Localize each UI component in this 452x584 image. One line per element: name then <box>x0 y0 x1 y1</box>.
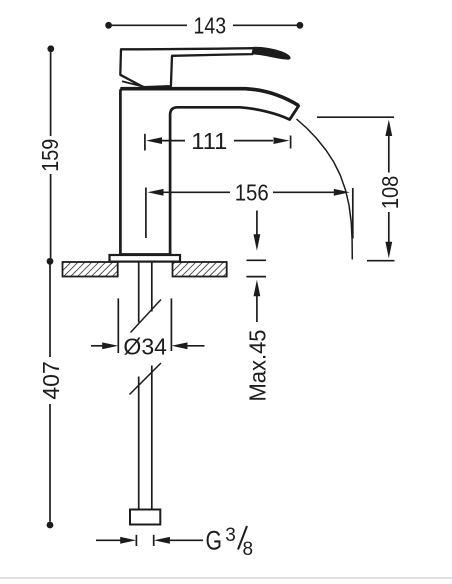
dimension 156 (water stream reach) <box>146 180 353 239</box>
countertop deck right (hatched) <box>173 262 227 277</box>
svg-text:407: 407 <box>38 361 64 400</box>
dimension Max.45 (deck thickness) <box>245 211 271 402</box>
svg-text:108: 108 <box>377 176 403 210</box>
supply pipe upper segment <box>139 262 152 323</box>
dimension 159 (height above deck) <box>37 45 63 258</box>
svg-text:8: 8 <box>243 539 254 560</box>
svg-text:156: 156 <box>235 180 269 206</box>
svg-text:3: 3 <box>225 525 236 546</box>
svg-text:143: 143 <box>194 12 227 38</box>
spout mouth end face <box>290 106 299 120</box>
handle base inner diagonal <box>122 81 146 87</box>
supply pipe lower segment <box>139 366 152 510</box>
pipe break diagonal lower <box>130 363 162 395</box>
dimension 111 (spout outlet reach) <box>145 128 291 154</box>
dimension 143 (top width) <box>105 12 303 38</box>
handle lever tip (solid) <box>253 47 291 59</box>
faucet body (column and spout outline) <box>120 89 298 255</box>
countertop deck left (hatched) <box>63 262 118 277</box>
svg-text:159: 159 <box>37 139 63 172</box>
dimension 108 (spout height above deck) <box>317 117 403 261</box>
pipe break diagonal upper <box>131 300 162 333</box>
svg-text:Max.45: Max.45 <box>245 330 271 402</box>
base flange plate <box>110 255 181 262</box>
handle lever outline <box>120 48 254 87</box>
dimension 407 (total height) <box>38 258 64 528</box>
svg-text:111: 111 <box>191 128 227 154</box>
footer separator line <box>0 577 452 579</box>
svg-text:G: G <box>206 526 223 556</box>
dimension Ø34 (body diameter) <box>91 298 205 359</box>
dimension G 3/8 (thread size) <box>96 525 253 560</box>
spout top thick edge <box>120 89 298 106</box>
connection nut <box>130 510 160 525</box>
water stream arc <box>297 119 353 260</box>
svg-text:Ø34: Ø34 <box>123 334 167 360</box>
